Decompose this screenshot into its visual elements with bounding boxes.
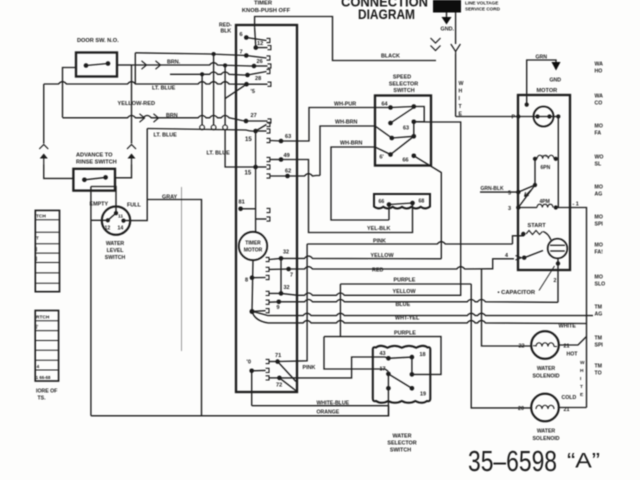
connector arrow x131 (128, 154, 136, 159)
connector chevron v1 (black lead) (431, 38, 441, 43)
advance to rinse switch body (73, 169, 115, 191)
svg-text:43: 43 (380, 351, 386, 357)
table1 row line 1 (35, 219, 59, 221)
svg-text:WO: WO (595, 155, 604, 161)
timer terminal 28 (244, 82, 249, 87)
connector ring x225 (223, 125, 228, 130)
door-rinse vertical upper (131, 65, 133, 144)
rinse riser lower (44, 165, 74, 179)
connector drop x225 (224, 65, 226, 125)
svg-text:SLO: SLO (595, 282, 606, 288)
capacitor arm from 4 (524, 251, 543, 258)
svg-text:RTCH: RTCH (36, 315, 50, 321)
lead 63 (270, 140, 281, 143)
shift arm to 5 (518, 185, 535, 192)
hot 21 wire (559, 337, 587, 346)
svg-text:BLK: BLK (221, 29, 232, 35)
lead 26 (254, 65, 268, 67)
contact 32b (266, 291, 269, 295)
lead 15 upper a (256, 125, 267, 132)
contact 8 (266, 275, 269, 279)
svg-text:LT. BLUE: LT. BLUE (152, 85, 176, 91)
timer terminal 26 (252, 64, 257, 69)
svg-text:SOLENOID: SOLENOID (532, 374, 559, 380)
svg-text:15: 15 (245, 137, 252, 143)
svg-text:PURPLE: PURPLE (394, 278, 416, 284)
timer terminal 7 (244, 53, 249, 58)
contact 81b (267, 217, 270, 221)
svg-text:GND.: GND. (441, 27, 455, 33)
svg-text:MO: MO (595, 215, 603, 221)
svg-text:LT. BLUE: LT. BLUE (154, 133, 178, 139)
connector Y (white lead) (451, 44, 461, 54)
speed terminal D (412, 120, 417, 125)
door switch arm (86, 64, 108, 66)
lead TO (252, 369, 266, 371)
motor circle arm (534, 116, 554, 118)
svg-text:26: 26 (257, 59, 263, 65)
speed link D-E (413, 122, 415, 137)
connector arrow row3-1 (140, 114, 145, 122)
lead row75 (248, 72, 267, 76)
contact row311 (266, 309, 269, 313)
capacitor bottom lead (557, 259, 559, 303)
svg-text:'5: '5 (251, 89, 255, 95)
svg-text:15: 15 (245, 171, 252, 177)
pink jog into start (513, 235, 524, 244)
svg-text:TO: TO (595, 371, 602, 377)
svg-text:3: 3 (508, 206, 511, 212)
white wire to motor P (456, 116, 533, 118)
table2 row line 5 (35, 359, 58, 361)
svg-text:|: | (36, 256, 37, 261)
timer terminal 7b (286, 267, 291, 272)
contact 26 (268, 64, 271, 68)
speed H 66 output diagonal (414, 156, 442, 259)
yel-blk terminal 68 (410, 201, 415, 206)
winding 6PN right dot (554, 157, 558, 161)
selector arm 17-19 (388, 374, 412, 388)
speed arm G-E (391, 136, 414, 154)
cold solenoid coil (536, 405, 554, 409)
svg-text:8: 8 (245, 278, 248, 284)
svg-text:FA: FA (595, 131, 602, 137)
door switch right lead (117, 64, 132, 66)
water level switch arm (108, 213, 116, 220)
svg-text:4: 4 (505, 253, 508, 259)
rinse switch throw (103, 175, 108, 180)
svg-text:HO: HO (595, 69, 603, 75)
purple2 wire row to selector 18 (324, 337, 441, 375)
svg-text:64: 64 (382, 102, 388, 108)
svg-text:WA: WA (595, 94, 604, 100)
svg-text:P: P (512, 115, 516, 121)
svg-text:4PM: 4PM (540, 199, 550, 205)
timer motor feed vertical (255, 131, 257, 232)
svg-text:WATER: WATER (537, 429, 556, 435)
black wire (255, 17, 436, 61)
wire lt-blue row4 to timer 15 (147, 129, 255, 132)
motor terminal P (516, 115, 520, 119)
svg-text:MO: MO (595, 124, 603, 130)
contact 71 (266, 359, 269, 363)
svg-text:W: W (580, 360, 585, 366)
svg-text:BRN.: BRN. (167, 60, 181, 66)
svg-text:BLACK: BLACK (381, 54, 400, 60)
svg-text:RED: RED (372, 268, 383, 274)
contact row75 (267, 69, 270, 73)
svg-text:WATER: WATER (106, 241, 125, 247)
svg-text:IORE OF: IORE OF (36, 389, 57, 395)
connector arrow x43 (40, 154, 48, 159)
winding 6PN left dot (533, 157, 537, 161)
connector drop x213 (213, 54, 215, 125)
table1 row line 5 (35, 262, 59, 264)
row 315 (tm ag) (268, 313, 593, 315)
contact 15a (267, 122, 270, 126)
hot solenoid coil leads (533, 345, 557, 348)
contact 62 (267, 174, 270, 178)
water level terminal 11 (114, 211, 118, 215)
wh-pur wire to 63 (281, 108, 391, 142)
speed terminal F (390, 136, 395, 141)
svg-text:GRN-BLK: GRN-BLK (481, 186, 504, 192)
svg-text:ADVANCE TO: ADVANCE TO (76, 153, 113, 159)
svg-text:12: 12 (105, 226, 111, 232)
speed terminal C (388, 121, 393, 126)
start winding arm 3 (518, 185, 535, 208)
svg-text:WHITE: WHITE (559, 324, 577, 330)
svg-text:AG: AG (595, 312, 603, 318)
selector 17b lead to white-blue orange (387, 388, 389, 416)
faint wire left of timer (181, 187, 183, 351)
svg-text:SWITCH: SWITCH (105, 255, 126, 261)
selector terminal 17 (386, 372, 391, 377)
line voltage service cord plug (433, 0, 461, 13)
svg-text:YELLOW: YELLOW (371, 253, 395, 259)
svg-text:6: 6 (240, 32, 243, 38)
junction row1a x225 (223, 63, 227, 67)
yellow wire row (32a to speed 66) (281, 256, 441, 259)
wh-brn wire 1 (320, 126, 392, 176)
svg-text:|': |' (36, 324, 38, 329)
lead 81b (255, 218, 266, 220)
connector ring x213 (211, 125, 216, 130)
grn terminal dot (525, 103, 529, 107)
selector terminal 18 (410, 355, 415, 360)
svg-text:EMPTY: EMPTY (90, 202, 109, 208)
timer terminal 12 (254, 45, 259, 50)
lead 32a (269, 258, 281, 259)
lead 7 (246, 56, 266, 59)
motor 1 wire (556, 208, 587, 324)
svg-text:DOOR SW. N.O.: DOOR SW. N.O. (77, 38, 119, 44)
svg-text:WHT-YEL: WHT-YEL (395, 316, 420, 322)
svg-text:TS.: TS. (38, 396, 47, 402)
shift actuator arrow (525, 190, 532, 197)
svg-text:TM: TM (595, 305, 603, 311)
contact 7b (266, 267, 269, 271)
connector chevron x43 (39, 145, 48, 150)
table1 row line 4 (35, 252, 59, 254)
svg-text:5: 5 (508, 191, 511, 197)
start to capacitor (543, 232, 551, 241)
yel-blk terminal 66 (387, 202, 392, 207)
lead 12 (256, 47, 268, 49)
svg-text:T: T (36, 236, 39, 241)
curve to row 322.9 (252, 312, 268, 323)
table2 row line 1 (35, 320, 58, 322)
svg-text:81: 81 (239, 200, 245, 206)
svg-text:14: 14 (118, 226, 124, 232)
svg-text:COLD: COLD (562, 395, 577, 401)
yel-blk switch body (374, 194, 430, 209)
jumper x135 row1b-row2 (134, 53, 136, 84)
svg-text:START: START (528, 223, 547, 229)
jumper 32a-32b (280, 258, 282, 293)
svg-text:HOT: HOT (567, 352, 579, 358)
svg-text:9: 9 (277, 305, 280, 311)
svg-text:72: 72 (276, 383, 282, 389)
rinse switch arm (84, 177, 105, 179)
selector terminal 19 (410, 386, 415, 391)
svg-text:63: 63 (285, 134, 291, 140)
svg-text:o o: o o (542, 153, 549, 158)
svg-text:WH-BRN: WH-BRN (340, 141, 363, 147)
timer terminal (row 75) (245, 73, 250, 78)
motor run circle (534, 107, 554, 127)
lead 28 (247, 83, 268, 85)
svg-text:H: H (459, 89, 463, 95)
svg-text:SPI: SPI (595, 222, 604, 228)
yel-blk switch arm (389, 203, 413, 205)
contact 27 (268, 119, 271, 123)
svg-text:TCH: TCH (36, 214, 46, 220)
svg-text:BLUE: BLUE (396, 302, 411, 308)
svg-text:WA: WA (595, 62, 604, 68)
connector ring x202 (200, 125, 205, 130)
svg-text:6PN: 6PN (541, 165, 551, 171)
junction row1b x213 (212, 52, 216, 56)
contact 63 (267, 138, 270, 142)
svg-text:CO: CO (595, 101, 603, 107)
svg-text:H: H (580, 368, 584, 374)
contact 32a (266, 257, 269, 261)
lead 15 lower (256, 166, 267, 168)
svg-text:SWITCH: SWITCH (390, 448, 411, 454)
svg-text:TIMER: TIMER (254, 1, 273, 7)
wire 62 to wh-brn1 (288, 174, 321, 176)
timer terminal 71 (275, 359, 280, 364)
table2 row line 2 (35, 330, 58, 332)
door switch N.O. body (76, 53, 117, 77)
svg-text:68: 68 (419, 199, 425, 205)
red wire row (7 to motor 4) (289, 259, 514, 269)
motor circle dot L (535, 114, 539, 118)
terminal 12 wire (91, 219, 108, 221)
timer terminal 15 lower (253, 165, 258, 170)
door switch pole (84, 63, 89, 68)
svg-text:19: 19 (420, 392, 426, 398)
orange wire (91, 406, 389, 416)
purple descender x341 (339, 284, 341, 337)
svg-text:'0: '0 (247, 360, 251, 366)
contact 81a (267, 208, 270, 212)
timer terminal 72 (277, 376, 282, 381)
door switch throw (106, 61, 111, 66)
yellow2 wire row (281, 284, 461, 295)
cold feed from purple (471, 284, 531, 408)
svg-text:WHITE-BLUE: WHITE-BLUE (317, 401, 350, 407)
grn ground arrow (552, 62, 561, 71)
gray wire (147, 200, 201, 416)
svg-text:LEVEL: LEVEL (107, 248, 125, 254)
junction below timer motor (250, 309, 255, 314)
lead 27 (246, 120, 268, 122)
svg-text:12: 12 (257, 41, 263, 47)
capacitor bottom dot (556, 261, 560, 265)
ground lead stem (446, 13, 448, 18)
door switch left lead (63, 68, 77, 118)
motor circle right link (554, 116, 558, 118)
curve to row 315.6 (252, 312, 268, 316)
door-rinse vertical lower (115, 165, 132, 178)
row 323 white to solenoid common (268, 321, 587, 324)
pink descender to 71 (278, 244, 308, 362)
table2 row line 6 (35, 369, 58, 371)
hot feed from red (482, 269, 532, 346)
timer terminal 32b (279, 291, 284, 296)
contact 12 (268, 46, 271, 50)
timer terminal 27 (244, 119, 249, 124)
svg-text:MOTOR: MOTOR (537, 88, 558, 94)
svg-text:WATER: WATER (392, 434, 411, 440)
svg-text:BRN: BRN (166, 113, 178, 119)
lead 32b (269, 292, 281, 294)
svg-text:4: 4 (37, 364, 40, 370)
svg-text:MO: MO (595, 243, 603, 249)
lead 62 (270, 175, 288, 177)
wh-brn wire 2 (331, 147, 391, 220)
purple2 left drop to selector 17 (324, 337, 388, 372)
switch arm 72 (279, 378, 297, 392)
speed arm A-B (391, 107, 414, 108)
wire row75 left (170, 72, 248, 75)
svg-text:11: 11 (118, 214, 123, 220)
winding 4PM right dot (554, 205, 558, 209)
4PM lead (518, 207, 537, 209)
svg-text:ORANGE: ORANGE (317, 410, 340, 416)
start switch dot (521, 232, 525, 236)
rinse riser upper (43, 84, 45, 144)
lead row311 (252, 310, 266, 313)
diagonal to terminal 5 (225, 84, 246, 98)
speed terminal H 66 (412, 154, 417, 159)
svg-text:WATER: WATER (537, 366, 556, 372)
svg-text:• CAPACITOR: • CAPACITOR (498, 290, 536, 296)
lead 9 (269, 301, 279, 303)
timer knob-push off switch body (236, 25, 297, 392)
svg-text:- 1: - 1 (573, 202, 579, 208)
contact 15 lower (267, 165, 270, 169)
pink wire row (307, 242, 512, 244)
svg-text:SWITCH: SWITCH (393, 88, 414, 94)
svg-text:66: 66 (403, 157, 409, 163)
connector arrow row1a-2 (156, 61, 161, 69)
svg-text:SERVICE CORD: SERVICE CORD (465, 7, 501, 12)
contact 15b (267, 129, 270, 133)
svg-text:TIMER: TIMER (245, 241, 261, 247)
connector chevron v2 (black lead) (431, 46, 441, 51)
purple wire row (340, 283, 471, 285)
motor circle dot R (547, 114, 551, 118)
selector arm 43-18 (388, 357, 412, 358)
speed terminal B (412, 104, 417, 109)
svg-text:MO: MO (595, 185, 603, 191)
timer terminal 9 (277, 300, 282, 305)
left frame vertical (90, 187, 92, 416)
speed terminal E (412, 134, 417, 139)
lead 6 (246, 38, 266, 41)
svg-text:SL: SL (595, 162, 602, 168)
svg-text:1 66-68: 1 66-68 (36, 375, 51, 380)
speed terminal G (388, 152, 393, 157)
winding 4PM (537, 204, 553, 207)
ground arrow (down) (442, 17, 452, 25)
selector link 17-17b (387, 374, 389, 388)
lt blue vertical to 15 lower (225, 130, 256, 167)
water level terminal 12 (106, 218, 110, 222)
lead 8 (252, 277, 266, 279)
capacitor pointer line (539, 266, 555, 291)
lead 49 (270, 159, 281, 161)
motor terminal 4 (522, 256, 526, 260)
svg-text:66: 66 (379, 199, 385, 205)
contact 49 (267, 157, 270, 161)
table1 row line 2 (35, 231, 59, 233)
motor body (518, 95, 570, 270)
junction row3a x202 (200, 72, 204, 76)
water level terminal 14 (121, 219, 125, 223)
svg-text:PINK: PINK (303, 365, 316, 371)
legend table 2 (35, 311, 58, 382)
blue wire row (9 to capacitor 2) (279, 300, 558, 303)
grn-blk wire (480, 191, 518, 193)
svg-text:SELECTOR: SELECTOR (387, 441, 416, 447)
svg-text:|: | (36, 247, 37, 252)
contact TO (266, 368, 269, 372)
lead 15 upper b (256, 130, 267, 132)
timer motor lower vertical (252, 260, 253, 311)
svg-text:TM: TM (595, 364, 603, 370)
svg-text:DIAGRAM: DIAGRAM (358, 6, 415, 22)
terminal 11 wire to frame (91, 187, 116, 214)
capacitor plate upper (550, 244, 565, 246)
timer terminal 62 (285, 174, 290, 179)
svg-text:“A”: “A” (567, 450, 600, 473)
svg-text:SOLENOID: SOLENOID (532, 436, 559, 442)
svg-text:TM: TM (595, 336, 603, 342)
timer terminal 8 (250, 275, 255, 280)
svg-text:SELECTOR: SELECTOR (389, 82, 418, 88)
svg-text:GND: GND (550, 78, 562, 84)
table2 row line 4 (35, 349, 58, 351)
svg-text:PURPLE: PURPLE (394, 331, 416, 337)
selector link 18-18b (411, 357, 413, 374)
svg-text:FA!: FA! (595, 250, 604, 256)
speed arm C-B (391, 108, 414, 124)
cold water solenoid circle (531, 394, 559, 422)
